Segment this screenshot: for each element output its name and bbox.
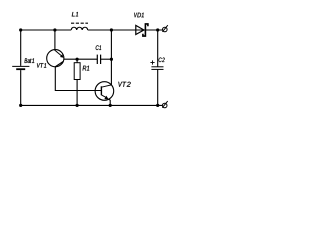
wire C2 bottom to ground rail [157, 69, 159, 105]
label L1 [72, 12, 78, 16]
base bar [100, 86, 102, 95]
label C1 [96, 45, 101, 50]
label C2 [159, 58, 165, 63]
transistor VT1 [47, 50, 64, 67]
label Bat1 [25, 58, 35, 63]
wire bottom rail [21, 104, 163, 106]
wire C1 right to vertical [101, 58, 112, 60]
plus sign for C2 [150, 60, 154, 64]
collector diagonal [101, 85, 111, 87]
core dashed line [71, 22, 88, 24]
bar chord [55, 61, 63, 66]
node dot R1 top / C1 left [76, 58, 79, 61]
node dot C2 bottom / ground rail [156, 104, 159, 107]
label VT2 [118, 82, 130, 87]
wire R1 bottom to ground rail [76, 80, 78, 106]
wire below battery [20, 70, 22, 105]
node dot bottom-left corner [19, 104, 22, 107]
node dot C1 right / VT2 collector [110, 58, 113, 61]
wire top rail right segment [88, 29, 163, 31]
label VT1 [37, 63, 46, 67]
inductor L1 [71, 23, 88, 30]
terminal bottom output [162, 101, 167, 108]
wire left rail (battery branch) [20, 30, 22, 66]
wire VT1 base node to C1 left [64, 58, 98, 60]
wire R1 top stub [76, 59, 78, 63]
emitter diagonal with arrow [101, 95, 105, 97]
resistor R1 [74, 63, 80, 80]
label R1 [83, 66, 90, 71]
node dot R1 bottom / ground rail [76, 104, 79, 107]
wire VT2 emitter to ground rail [109, 99, 111, 105]
node dot VT1 emitter / top rail [53, 28, 56, 31]
node dot L1 right / top rail [110, 28, 113, 31]
wire top rail left segment [21, 29, 71, 31]
diode VD1 (Schottky) [136, 24, 148, 36]
node dot VD1 cathode / top terminal [156, 28, 159, 31]
terminal top output [162, 25, 167, 32]
node dot VT2 emitter / ground rail [109, 104, 112, 107]
node dot top-left corner [19, 28, 22, 31]
transistor VT2 [95, 82, 114, 101]
capacitor C1 [97, 55, 100, 64]
capacitor C2 (polarized) [151, 67, 163, 70]
battery Bat1 [12, 66, 29, 69]
wire VD1 cathode node down to C2 [157, 30, 159, 67]
emitter diagonal with arrow [55, 50, 62, 56]
wire VT1 bottom lead to VT2 base [55, 67, 101, 91]
wire VT1 emitter lead [54, 30, 56, 51]
label VD1 [134, 13, 144, 18]
wire L1/VD1 node down to VT2 collector [110, 30, 112, 85]
